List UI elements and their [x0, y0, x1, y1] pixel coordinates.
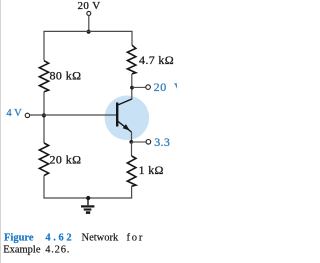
wire base	[30, 114, 116, 116]
svg-text:20 V: 20 V	[77, 0, 100, 12]
wire top rail	[44, 30, 132, 32]
terminal collector	[146, 85, 151, 90]
wire emitter	[131, 132, 133, 142]
wire emitter stub	[132, 141, 147, 143]
wire left bottom	[43, 176, 45, 199]
transistor Q1 emitter lead	[118, 121, 132, 132]
resistor RE 1k	[127, 156, 136, 186]
terminal 4V	[25, 113, 29, 117]
node emitter	[129, 140, 133, 144]
svg-text:3.3: 3.3	[154, 135, 170, 149]
transistor Q1 collector lead	[118, 99, 132, 105]
wire right top	[131, 31, 133, 45]
svg-text:Example4.26.: Example4.26.	[3, 244, 70, 255]
wire supply stub	[88, 15, 90, 31]
transistor Q1 emitter arrow	[123, 124, 130, 130]
wire collector stub	[132, 86, 146, 88]
svg-text:4.7 kΩ: 4.7 kΩ	[139, 53, 174, 67]
wire bottom right	[131, 186, 133, 198]
node ground junction	[86, 196, 90, 200]
wire left top	[43, 31, 45, 61]
page edge line	[0, 0, 2, 263]
wire collector	[131, 74, 133, 100]
terminal emitter	[146, 140, 151, 145]
resistor RC 4.7k	[127, 45, 135, 74]
resistor R2 20k	[39, 143, 48, 176]
transistor highlight circle	[105, 96, 150, 141]
svg-text:1 kΩ: 1 kΩ	[139, 163, 164, 177]
svg-text:4 V: 4 V	[6, 108, 22, 119]
terminal 20V	[87, 11, 91, 15]
transistor Q1 base bar	[116, 103, 118, 127]
svg-text:80 kΩ: 80 kΩ	[50, 68, 82, 82]
wire emitter to RE	[131, 142, 133, 156]
wire bottom rail	[44, 197, 132, 199]
svg-text:20V: 20V	[154, 80, 177, 94]
node supply junction	[87, 30, 91, 34]
svg-text:Networkfor: Networkfor	[82, 232, 145, 243]
ground	[81, 198, 94, 213]
svg-text:20 kΩ: 20 kΩ	[50, 152, 82, 166]
resistor R1 80k	[39, 61, 48, 92]
wire left mid	[43, 92, 45, 143]
node collector	[130, 86, 134, 90]
node base junction	[42, 113, 46, 117]
